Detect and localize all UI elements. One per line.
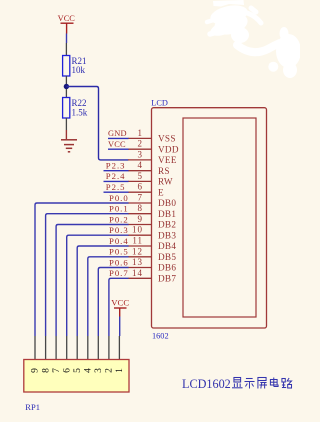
svg-text:P0.4: P0.4 [109,236,129,246]
svg-text:DB0: DB0 [158,198,176,208]
svg-text:P0.1: P0.1 [109,204,129,214]
svg-text:DB5: DB5 [158,252,176,262]
svg-text:VEE: VEE [158,155,177,165]
svg-text:VCC: VCC [111,297,129,307]
svg-text:DB1: DB1 [158,209,176,219]
svg-text:2: 2 [104,368,115,373]
svg-text:10k: 10k [72,65,86,75]
svg-text:DB6: DB6 [158,263,176,273]
svg-text:9: 9 [30,368,41,373]
svg-text:9: 9 [138,214,144,224]
svg-text:1: 1 [138,128,144,138]
svg-text:3: 3 [138,149,144,159]
svg-text:1602: 1602 [152,331,169,340]
svg-text:E: E [158,187,164,197]
svg-text:1.5k: 1.5k [72,108,88,118]
svg-text:P0.5: P0.5 [109,247,129,257]
svg-text:7: 7 [138,193,144,203]
svg-text:13: 13 [132,257,143,267]
svg-text:VSS: VSS [158,134,176,144]
svg-text:6: 6 [61,368,72,373]
svg-text:RP1: RP1 [25,402,40,412]
svg-text:GND: GND [108,129,127,138]
svg-text:P2.5: P2.5 [106,182,126,192]
svg-text:11: 11 [132,236,143,246]
svg-text:1: 1 [114,368,125,373]
svg-text:DB3: DB3 [158,230,176,240]
svg-text:8: 8 [138,203,144,213]
svg-text:5: 5 [138,171,144,181]
svg-text:2: 2 [138,139,144,149]
svg-text:RS: RS [158,166,170,176]
svg-text:P0.0: P0.0 [109,193,129,203]
svg-text:DB2: DB2 [158,220,176,230]
svg-text:14: 14 [132,268,143,278]
svg-text:7: 7 [51,368,62,373]
svg-text:10: 10 [132,225,143,235]
svg-text:12: 12 [132,246,143,256]
svg-text:5: 5 [72,368,83,373]
svg-text:P0.3: P0.3 [109,225,129,235]
svg-text:RW: RW [158,177,173,187]
svg-text:3: 3 [93,368,104,373]
svg-text:P0.6: P0.6 [109,257,129,267]
svg-text:DB4: DB4 [158,241,176,251]
svg-text:VDD: VDD [158,144,179,154]
svg-text:DB7: DB7 [158,273,176,283]
svg-text:P2.4: P2.4 [106,171,126,181]
svg-text:4: 4 [138,160,144,170]
svg-text:P0.7: P0.7 [109,268,129,278]
svg-text:LCD1602: LCD1602 [182,377,231,391]
svg-text:P2.3: P2.3 [106,161,126,171]
svg-text:VCC: VCC [108,140,126,149]
svg-text:LCD: LCD [151,98,168,107]
svg-text:4: 4 [83,368,94,373]
svg-text:VCC: VCC [58,14,76,23]
svg-text:6: 6 [138,182,144,192]
svg-text:8: 8 [40,368,51,373]
svg-text:P0.2: P0.2 [109,214,129,224]
